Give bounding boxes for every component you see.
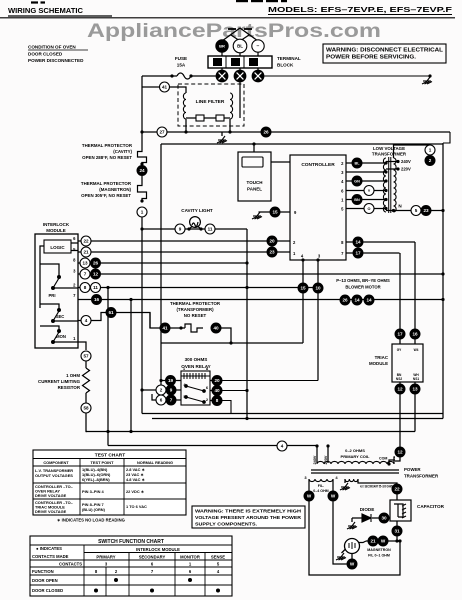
hv node dot xyxy=(395,539,398,542)
relay pair wire xyxy=(142,389,156,391)
svg-text:H.V. SECONDARY 55–100 OHMS: H.V. SECONDARY 55–100 OHMS xyxy=(360,485,393,489)
relay drive line y343 xyxy=(161,342,303,344)
connector 4 xyxy=(81,316,91,326)
svg-text:15: 15 xyxy=(300,286,306,291)
svg-text:GN: GN xyxy=(354,180,360,184)
magnetron hv wire xyxy=(366,540,400,542)
svg-text:CONTACTS: CONTACTS xyxy=(59,562,82,567)
svg-text:NS2: NS2 xyxy=(396,377,402,381)
top left dashes xyxy=(31,1,45,3)
svg-text:OUTPUT VOLTAGES: OUTPUT VOLTAGES xyxy=(35,473,73,478)
cavity loop left xyxy=(160,144,162,229)
svg-text:MODELS: EFS–7EVP.E, EFS–7EVP.: MODELS: EFS–7EVP.E, EFS–7EVP.F xyxy=(268,5,452,14)
door open dots xyxy=(114,578,192,582)
interlock inner bus xyxy=(40,246,44,308)
junction filter left xyxy=(140,130,143,133)
line filter box xyxy=(178,84,244,126)
svg-text:41: 41 xyxy=(162,85,168,90)
relay pair stub2 xyxy=(152,390,181,400)
magnetron cathode wire xyxy=(351,554,353,560)
svg-text:PANEL: PANEL xyxy=(247,187,262,192)
thermal protector transformer label xyxy=(170,301,221,318)
lv transformer secondary coil xyxy=(383,158,386,212)
svg-text:MODULE: MODULE xyxy=(46,228,66,233)
touch panel window xyxy=(242,157,263,167)
oven relay box xyxy=(181,371,210,405)
relay 40 junction xyxy=(245,389,248,392)
svg-text:MONITOR: MONITOR xyxy=(180,555,200,560)
svg-text:17: 17 xyxy=(355,251,361,256)
svg-text:DRIVE VOLTAGE: DRIVE VOLTAGE xyxy=(35,509,67,514)
connector 11 xyxy=(205,224,215,234)
primary com wire xyxy=(394,457,395,464)
terminal lug 3 xyxy=(252,70,265,83)
condition of oven note xyxy=(28,45,84,64)
svg-text:BN: BN xyxy=(354,198,360,202)
bus275 right dot xyxy=(441,272,444,275)
lv bottom wire xyxy=(386,210,443,212)
connector 20 xyxy=(267,236,277,246)
svg-text:BLOWER MOTOR: BLOWER MOTOR xyxy=(345,285,380,290)
relay drive junction xyxy=(229,341,232,344)
connector 4b xyxy=(277,441,287,451)
wire color Y xyxy=(364,186,374,196)
cavity light bus xyxy=(142,228,247,230)
svg-text:W: W xyxy=(331,494,336,499)
filter cap links xyxy=(186,117,230,119)
touch panel to controller xyxy=(271,161,290,163)
magnetron anode wire xyxy=(359,541,366,543)
svg-text:W: W xyxy=(350,562,355,567)
220v tap dot xyxy=(396,167,399,170)
svg-text:CONTROLLER: CONTROLLER xyxy=(301,162,335,168)
connector 23 xyxy=(267,247,277,257)
svg-text:4: 4 xyxy=(281,444,284,449)
svg-text:DIODE: DIODE xyxy=(360,507,375,512)
pin7R wire xyxy=(346,252,400,254)
cavity light drop right xyxy=(246,229,248,419)
filter capacitor 2 xyxy=(216,115,224,121)
connector m2 xyxy=(352,295,362,305)
bus y432 xyxy=(86,431,415,433)
magnetron body xyxy=(345,539,360,554)
cap top wire xyxy=(396,494,398,500)
terminal pins lower xyxy=(222,68,258,71)
svg-text:7: 7 xyxy=(84,272,87,277)
diode ground xyxy=(347,522,357,529)
thermal protector cavity label xyxy=(82,143,133,160)
bus pin5 xyxy=(78,251,290,253)
logic pin wires xyxy=(71,243,78,251)
svg-text:6(YEL)–8(BRN): 6(YEL)–8(BRN) xyxy=(82,477,110,482)
SEC switch xyxy=(52,309,61,323)
current limiting resistor xyxy=(83,368,90,393)
primary tap 240 xyxy=(316,446,318,463)
bus300 right dot xyxy=(441,298,444,301)
test chart texts xyxy=(35,460,173,514)
controller pin 3R wire xyxy=(346,171,386,173)
filter coil bottoms xyxy=(186,119,230,132)
svg-text:BL: BL xyxy=(354,162,360,166)
right outer corner xyxy=(443,132,450,143)
connector 58 xyxy=(81,403,91,413)
controller pin 2R wire xyxy=(346,162,386,164)
svg-text:THERMAL PROTECTOR: THERMAL PROTECTOR xyxy=(82,143,133,148)
svg-text:INTERLOCK: INTERLOCK xyxy=(43,222,70,227)
connector 21 xyxy=(81,247,91,257)
svg-text:POWER BEFORE SERVICING.: POWER BEFORE SERVICING. xyxy=(326,55,417,61)
terminal block body xyxy=(208,56,272,68)
fuse dot left xyxy=(170,74,173,77)
connector 26b xyxy=(91,258,101,268)
diode symbol xyxy=(362,514,371,522)
power transformer label xyxy=(404,467,439,479)
connector W3 xyxy=(347,559,357,569)
tp transformer switch xyxy=(185,324,203,332)
connector 41 xyxy=(160,82,170,92)
svg-text:5: 5 xyxy=(415,208,418,213)
main right vertical xyxy=(442,143,444,419)
pin9 wire xyxy=(259,211,291,213)
tpx dot xyxy=(179,326,182,329)
triac feed left xyxy=(399,253,401,329)
low voltage transformer label xyxy=(372,146,407,157)
bus432 x131 dot xyxy=(129,430,132,433)
tap dot pin 4R xyxy=(384,179,387,182)
PRI switch xyxy=(52,276,61,290)
filter capacitor 1 xyxy=(196,115,204,121)
incoming line dashes xyxy=(228,28,252,30)
svg-text:16: 16 xyxy=(412,332,418,337)
svg-text:CONDITION OF OVEN: CONDITION OF OVEN xyxy=(28,45,76,50)
MON com wire xyxy=(40,326,78,342)
svg-text:23: 23 xyxy=(269,250,275,255)
oven relay coil xyxy=(181,373,210,379)
controller pin3 drop xyxy=(317,260,319,381)
cavity loop top xyxy=(161,143,443,145)
line filter ground xyxy=(217,136,227,143)
connector 57 xyxy=(81,351,91,361)
svg-text:TERMINAL: TERMINAL xyxy=(277,56,301,61)
branch to filter xyxy=(142,87,186,93)
svg-text:PIN 3–PIN 4: PIN 3–PIN 4 xyxy=(82,489,104,494)
svg-text:1: 1 xyxy=(141,210,144,215)
svg-text:TOUCH: TOUCH xyxy=(247,180,263,185)
resistor top wire xyxy=(85,361,87,368)
relay 20 wire xyxy=(222,380,318,382)
magnetron ground stub xyxy=(342,549,346,553)
svg-text:COMPONENT: COMPONENT xyxy=(43,460,69,465)
svg-text:DOOR CLOSED: DOOR CLOSED xyxy=(28,52,63,57)
lv transformer primary coil xyxy=(394,158,397,212)
svg-text:(TRANSFORMER): (TRANSFORMER) xyxy=(176,307,214,312)
svg-text:220V: 220V xyxy=(401,167,411,172)
connector 1t xyxy=(425,145,435,155)
svg-text:2: 2 xyxy=(160,388,163,393)
connector 6b xyxy=(156,395,166,405)
bus288 x247 dot xyxy=(245,286,248,289)
connector 14 xyxy=(353,237,363,247)
svg-text:9: 9 xyxy=(170,388,173,393)
connector m3 xyxy=(364,295,374,305)
svg-text:COM: COM xyxy=(379,457,387,461)
wire color GN xyxy=(352,176,362,186)
svg-text:P–13 OHMS, BR–YE OHMS: P–13 OHMS, BR–YE OHMS xyxy=(336,278,390,283)
relay contact 1 xyxy=(185,385,206,393)
controller box xyxy=(290,155,346,260)
svg-text:OPEN 288°F, NO RESET: OPEN 288°F, NO RESET xyxy=(82,155,132,160)
svg-text:21: 21 xyxy=(370,539,376,544)
svg-text:NS1: NS1 xyxy=(413,377,419,381)
svg-text:12: 12 xyxy=(397,450,403,455)
connector 17t xyxy=(395,329,405,339)
240v tap dot xyxy=(396,160,399,163)
svg-text:TEST POINT: TEST POINT xyxy=(91,460,115,465)
x108 top dot xyxy=(106,286,109,289)
MON switch xyxy=(52,330,61,344)
connector 8 xyxy=(80,283,90,293)
svg-text:17: 17 xyxy=(397,332,403,337)
power transformer primary xyxy=(317,461,394,464)
pin4 bottom dot xyxy=(301,258,304,261)
svg-text:9: 9 xyxy=(179,227,182,232)
svg-text:DRIVE VOLTAGE: DRIVE VOLTAGE xyxy=(35,493,67,498)
svg-text:POWER DISCONNECTED: POWER DISCONNECTED xyxy=(28,58,84,63)
terminal pins upper xyxy=(222,52,258,56)
tp transformer wire mid xyxy=(170,327,185,329)
hv out wire xyxy=(358,479,397,484)
tap dot pin 6R xyxy=(384,189,387,192)
svg-text:POWER: POWER xyxy=(404,467,421,472)
svg-text:WARNING: DISCONNECT ELECTRICAL: WARNING: DISCONNECT ELECTRICAL xyxy=(326,48,443,54)
resistor label xyxy=(38,373,81,390)
svg-text:57: 57 xyxy=(83,354,89,359)
cavity lamp xyxy=(190,217,201,228)
primary com stub xyxy=(389,460,395,464)
bus sec pin xyxy=(78,313,150,329)
power transformer core xyxy=(311,470,399,473)
svg-text:26: 26 xyxy=(93,261,99,266)
tp transformer out wire xyxy=(221,328,231,343)
bus y418 xyxy=(152,418,443,420)
connector 12i xyxy=(91,269,101,279)
connector 41b xyxy=(160,323,170,333)
svg-text:PRIMARY: PRIMARY xyxy=(96,555,115,560)
svg-text:BLOCK: BLOCK xyxy=(277,63,294,68)
svg-text:300 OHMS: 300 OHMS xyxy=(185,357,208,362)
svg-text:SECONDARY: SECONDARY xyxy=(139,555,166,560)
thermal protector magnetron xyxy=(138,184,147,200)
svg-text:(CAVITY): (CAVITY) xyxy=(113,149,132,154)
connector 12t xyxy=(395,384,405,394)
switch chart box xyxy=(30,536,232,596)
relay contact 2 xyxy=(185,396,206,404)
svg-text:8: 8 xyxy=(84,285,87,290)
svg-text:CONTACTS MADE: CONTACTS MADE xyxy=(32,554,69,559)
svg-text:O: O xyxy=(368,207,371,211)
svg-text:22: 22 xyxy=(83,239,89,244)
svg-text:26: 26 xyxy=(342,298,348,303)
svg-text:12: 12 xyxy=(93,272,99,277)
controller pin 1R wire xyxy=(346,199,386,201)
svg-text:14: 14 xyxy=(354,298,360,303)
resistor to bus xyxy=(86,413,87,432)
svg-text:1 OHM: 1 OHM xyxy=(66,373,80,378)
terminal lug 1 xyxy=(216,70,229,83)
connector 9 xyxy=(175,224,185,234)
triac bottom stubs xyxy=(400,382,415,384)
terminal lug 2 xyxy=(234,70,247,83)
svg-text:MODULE: MODULE xyxy=(369,361,388,366)
primary tap dot2 xyxy=(326,444,329,447)
warning text top xyxy=(326,48,443,61)
connector 7 xyxy=(80,269,90,279)
svg-text:21: 21 xyxy=(83,250,89,255)
warning text bottom xyxy=(195,509,302,527)
hv ground stub xyxy=(344,479,346,483)
svg-text:6: 6 xyxy=(160,398,163,403)
bus mon pin xyxy=(78,342,86,350)
bus pin8 xyxy=(78,262,247,264)
PRI com wire xyxy=(40,264,78,288)
tap dot pin 5R xyxy=(384,207,387,210)
svg-text:TRIAC: TRIAC xyxy=(375,355,389,360)
fil pin stubs xyxy=(309,479,333,491)
filter coil right xyxy=(230,93,233,119)
svg-text:14: 14 xyxy=(366,298,372,303)
svg-text:240V: 240V xyxy=(401,159,411,164)
tp magnetron dot xyxy=(140,199,143,202)
bus pin8 end dot xyxy=(245,261,248,264)
svg-text:LINE FILTER: LINE FILTER xyxy=(196,99,225,105)
connector 7b xyxy=(166,395,176,405)
triac module box xyxy=(392,344,423,382)
fuse symbol xyxy=(177,73,191,79)
svg-text:CAVITY LIGHT: CAVITY LIGHT xyxy=(181,208,213,213)
svg-text:30: 30 xyxy=(381,516,387,521)
bus y446 xyxy=(108,445,317,447)
ground tap dot xyxy=(428,74,431,77)
cavity bus junction xyxy=(140,227,143,230)
svg-text:FIL.: FIL. xyxy=(318,484,324,488)
magnetron label xyxy=(367,548,391,558)
connector 24 xyxy=(137,166,147,176)
connector 23b xyxy=(421,206,431,216)
svg-text:NO RESET: NO RESET xyxy=(184,313,207,318)
connector 40b xyxy=(211,323,221,333)
svg-text:15A: 15A xyxy=(177,63,186,68)
bus pin7 xyxy=(78,299,443,301)
svg-text:61: 61 xyxy=(108,310,114,315)
svg-text:WIRING SCHEMATIC: WIRING SCHEMATIC xyxy=(8,6,83,15)
lamp dot right xyxy=(199,227,202,230)
fuse dot right xyxy=(189,74,192,77)
connector 16t xyxy=(410,329,420,339)
svg-text:LOGIC: LOGIC xyxy=(50,245,65,250)
svg-text:BL: BL xyxy=(237,44,243,49)
svg-text:W: W xyxy=(307,494,312,499)
junction filter r2 xyxy=(228,130,231,133)
svg-text:BR: BR xyxy=(219,44,225,49)
relay 8 wire xyxy=(222,401,231,414)
connector 2b xyxy=(156,385,166,395)
primary com dot xyxy=(387,462,390,465)
svg-text:0–4 OHM: 0–4 OHM xyxy=(313,489,328,493)
svg-text:27: 27 xyxy=(159,130,165,135)
x131 top dot xyxy=(129,298,132,301)
svg-text:13: 13 xyxy=(412,387,418,392)
header rule xyxy=(0,17,455,19)
lv transformer top wire xyxy=(394,145,431,158)
svg-text:4: 4 xyxy=(85,318,88,323)
triac right drop xyxy=(414,394,416,432)
diode wire xyxy=(352,517,379,519)
cap bottom wire xyxy=(396,521,398,526)
wire color BN xyxy=(352,195,362,205)
controller pin 6R wire xyxy=(346,190,386,192)
filament return wire xyxy=(333,502,347,565)
connector 22 xyxy=(81,236,91,246)
warning box top xyxy=(323,44,446,63)
svg-text:−: − xyxy=(257,44,260,50)
connector 15 xyxy=(270,207,280,217)
svg-text:(BLU) (ORN): (BLU) (ORN) xyxy=(82,507,106,512)
thermal protector magnetron label xyxy=(81,181,132,198)
svg-text:40: 40 xyxy=(214,388,220,393)
connector 20b xyxy=(212,376,222,386)
svg-text:58: 58 xyxy=(83,406,89,411)
svg-text:11: 11 xyxy=(208,227,213,232)
svg-text:SENSE: SENSE xyxy=(211,555,225,560)
svg-text:VOLTAGE PRESENT AROUND THE POW: VOLTAGE PRESENT AROUND THE POWER xyxy=(195,515,302,520)
svg-text:20: 20 xyxy=(214,378,220,383)
wire fuse to corner xyxy=(142,75,177,77)
touch panel box xyxy=(238,152,271,201)
thermal protector cavity xyxy=(138,150,147,164)
controller pin 4R wire xyxy=(346,180,386,182)
svg-text:PRI: PRI xyxy=(49,293,56,298)
cap to magnetron node xyxy=(396,536,398,541)
svg-text:20: 20 xyxy=(269,239,275,244)
svg-text:13: 13 xyxy=(82,261,88,266)
svg-text:NORMAL READING: NORMAL READING xyxy=(137,460,173,465)
svg-text:TRANSFORMER: TRANSFORMER xyxy=(372,152,407,157)
connector 17 xyxy=(353,248,363,258)
pin8R wire xyxy=(346,241,415,243)
controller pin4 drop xyxy=(302,260,304,343)
primary tap dot xyxy=(315,444,318,447)
diode ground stub xyxy=(351,518,353,522)
svg-text:AppliancePartsPros.com: AppliancePartsPros.com xyxy=(87,20,381,42)
triac to transformer xyxy=(395,457,400,461)
connector 13t xyxy=(410,384,420,394)
lv right junction xyxy=(441,209,444,212)
controller ground xyxy=(252,212,262,219)
relay right stub xyxy=(210,381,212,401)
pin3 bottom dot xyxy=(316,258,319,261)
connector m1 xyxy=(340,295,350,305)
line terminal GND xyxy=(252,40,264,52)
connector 10 xyxy=(313,283,323,293)
svg-text:PRIMARY COIL: PRIMARY COIL xyxy=(341,454,370,459)
svg-text:THERMAL PROTECTOR: THERMAL PROTECTOR xyxy=(81,181,132,186)
wire L1 to fuse xyxy=(191,75,216,77)
logic box xyxy=(44,240,71,253)
tp cavity dot xyxy=(140,162,143,165)
touch panel top dot xyxy=(252,142,255,145)
hv secondary xyxy=(345,479,358,482)
svg-text:19: 19 xyxy=(168,378,174,383)
